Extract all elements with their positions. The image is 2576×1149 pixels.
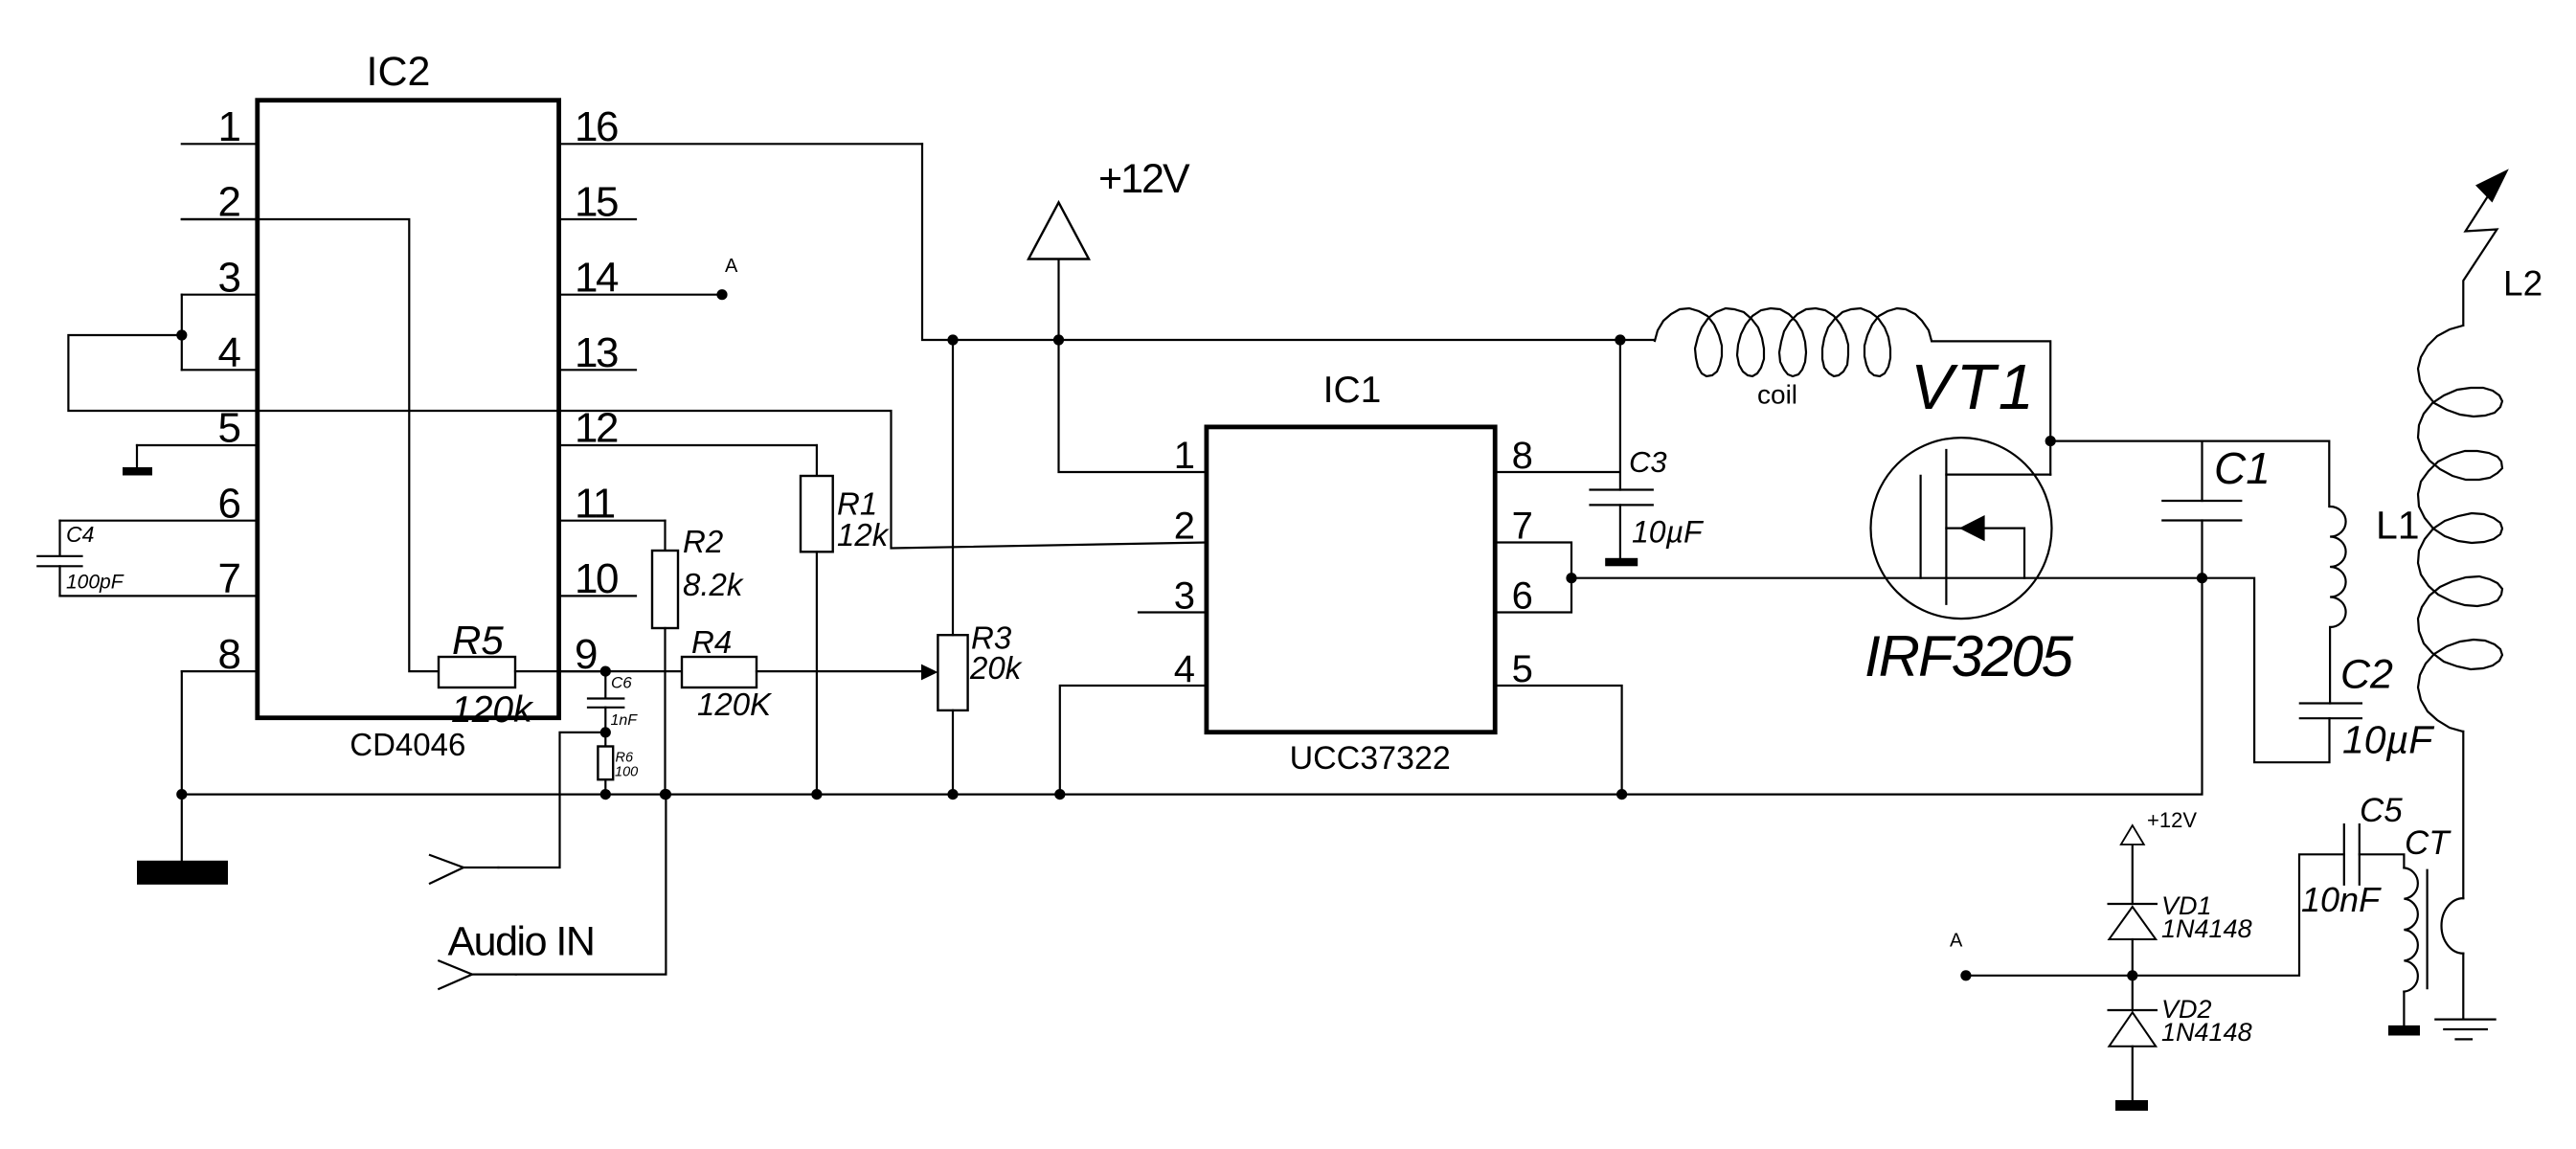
- inductor coil (choke): [1655, 308, 1932, 376]
- +12V small symbol: [2132, 845, 2134, 904]
- svg-text:15: 15: [575, 179, 618, 226]
- svg-text:IC2: IC2: [367, 49, 431, 95]
- ground rail (bottom bus): [182, 578, 2203, 795]
- gate junction node: [1566, 573, 1576, 583]
- svg-text:120k: 120k: [451, 689, 534, 731]
- svg-text:R4: R4: [691, 624, 732, 660]
- IC2 pin 14 stub to node A: [559, 294, 722, 296]
- IC2 pin 2 stub: [182, 218, 258, 220]
- ground bar VD2: [2115, 1100, 2148, 1111]
- svg-text:1: 1: [1174, 435, 1195, 477]
- svg-text:R6: R6: [616, 750, 634, 765]
- svg-text:12k: 12k: [837, 517, 890, 552]
- svg-text:100pF: 100pF: [66, 572, 124, 594]
- svg-text:R2: R2: [683, 524, 723, 559]
- junction R6 to ground rail: [600, 789, 611, 800]
- IC2 pin 5 stub: [137, 444, 258, 446]
- ground pin5: [136, 445, 138, 467]
- svg-text:coil: coil: [1757, 380, 1797, 410]
- svg-text:+12V: +12V: [1098, 156, 1190, 202]
- +12V power symbol (main): [1059, 259, 1207, 473]
- svg-text:1N4148: 1N4148: [2161, 914, 2252, 943]
- wire pins 3-4 tie bracket: [181, 295, 183, 371]
- node A dot (pin14): [716, 289, 727, 300]
- svg-text:+12V: +12V: [2147, 808, 2197, 832]
- junction IC1 pin4 to ground rail: [1054, 789, 1065, 800]
- capacitor C2: [2300, 704, 2361, 719]
- junction R3 bottom to ground rail: [947, 789, 958, 800]
- svg-text:8.2k: 8.2k: [683, 567, 744, 602]
- svg-text:7: 7: [1512, 506, 1533, 548]
- capacitor C6: [604, 671, 606, 698]
- svg-text:8: 8: [218, 631, 241, 678]
- svg-text:8: 8: [1512, 435, 1533, 477]
- node C6/R6/audio junction: [600, 727, 611, 737]
- svg-text:2: 2: [1174, 506, 1195, 548]
- svg-text:Audio IN: Audio IN: [448, 919, 595, 965]
- svg-text:C4: C4: [66, 522, 94, 547]
- IC2 pin 7 stub: [60, 595, 258, 597]
- MOSFET VT1 IRF3205: [1871, 438, 2052, 619]
- svg-text:C1: C1: [2214, 443, 2271, 493]
- node junction pins3/4: [176, 329, 187, 340]
- svg-text:R5: R5: [452, 618, 504, 663]
- svg-text:IRF3205: IRF3205: [1864, 624, 2074, 688]
- capacitor C5: [2344, 824, 2360, 885]
- capacitor C4: [58, 521, 60, 555]
- svg-text:1nF: 1nF: [611, 712, 639, 729]
- svg-text:CD4046: CD4046: [350, 727, 465, 762]
- diode VD1 1N4148: [2109, 903, 2157, 905]
- svg-text:6: 6: [218, 480, 241, 527]
- svg-text:L2: L2: [2503, 263, 2542, 303]
- junction audio return to ground rail: [661, 789, 671, 800]
- node C1 bottom / source junction: [2197, 573, 2207, 583]
- audio input connector (top, to C6): [430, 855, 463, 884]
- IC2 pin 12 stub: [559, 444, 817, 446]
- svg-text:120K: 120K: [697, 687, 773, 722]
- IC2 pin 4 stub: [182, 369, 258, 371]
- IC2 pin 11 stub: [559, 520, 666, 522]
- potentiometer R3: [938, 635, 967, 710]
- svg-text:7: 7: [218, 555, 241, 602]
- junction +12V feed on rail: [1053, 334, 1064, 345]
- IC1 pin 8 wire: [1495, 471, 1620, 473]
- IC2 pin 10 stub: [559, 595, 636, 597]
- IC2 pin 1 stub: [182, 143, 258, 145]
- svg-text:IC1: IC1: [1323, 370, 1382, 411]
- svg-text:13: 13: [575, 329, 618, 376]
- svg-text:20k: 20k: [969, 650, 1023, 686]
- resistor R5: [439, 657, 515, 687]
- svg-text:3: 3: [1174, 575, 1195, 618]
- resistor R6: [604, 732, 606, 747]
- IC1 pin 4 wire to ground: [1060, 686, 1207, 795]
- svg-text:A: A: [725, 256, 738, 277]
- resistor R1: [816, 445, 818, 476]
- IC2 pin 13 stub: [559, 369, 636, 371]
- IC1 UCC37322 driver: [1207, 427, 1495, 732]
- wire R5 to pin9: [515, 670, 605, 672]
- body diode arrow: [1946, 529, 2024, 578]
- transformer CT core: [2427, 870, 2429, 988]
- node pin9 junction: [600, 666, 611, 677]
- svg-text:4: 4: [1174, 648, 1195, 690]
- svg-text:10µF: 10µF: [2342, 717, 2434, 761]
- junction VD1/VD2 node: [2127, 970, 2137, 980]
- resistor R4: [605, 670, 682, 672]
- IC1 pin 5 wire to ground: [1495, 686, 1621, 795]
- channel bar: [1945, 450, 1947, 604]
- +12V rail: [922, 144, 1655, 340]
- svg-text:14: 14: [575, 254, 619, 301]
- svg-text:6: 6: [1512, 575, 1533, 618]
- junction C3 to +12V rail: [1615, 334, 1625, 345]
- gate/source wire to MOSFET and C2 loop: [1571, 578, 2330, 763]
- junction R2 to ground rail: [660, 789, 670, 800]
- secondary coil L2: [2418, 326, 2502, 732]
- wire coil to drain: [1932, 341, 2050, 474]
- gate bar: [1919, 476, 1921, 578]
- svg-text:10µF: 10µF: [1632, 514, 1705, 549]
- svg-text:L1: L1: [2376, 503, 2420, 547]
- IC2 CD4046 PLL: [258, 101, 559, 718]
- node A terminal dot: [1960, 970, 1971, 980]
- svg-text:C6: C6: [611, 674, 632, 692]
- junction IC1 pin5 to ground rail: [1616, 789, 1627, 800]
- junction R3 top to +12V rail: [947, 334, 958, 345]
- svg-text:VT1: VT1: [1910, 351, 2037, 423]
- wire R4 to R3 wiper arrow: [757, 670, 922, 672]
- drain wire to C1 / L1: [2050, 441, 2329, 507]
- resistor R2: [664, 521, 666, 551]
- svg-text:C2: C2: [2340, 652, 2393, 698]
- svg-text:100: 100: [615, 765, 638, 780]
- svg-text:1N4148: 1N4148: [2161, 1018, 2252, 1047]
- junction R1 to ground rail: [811, 789, 822, 800]
- earth ground: [2435, 1020, 2495, 1040]
- svg-text:4: 4: [218, 329, 241, 376]
- svg-text:3: 3: [218, 254, 241, 301]
- svg-text:10nF: 10nF: [2301, 880, 2382, 919]
- IC2 pin 8 stub: [182, 670, 258, 672]
- IC2 pin 9 stub: [559, 670, 606, 672]
- svg-text:A: A: [1950, 931, 1963, 952]
- capacitor C1: [2201, 442, 2203, 502]
- wire pin8 to ground rail: [181, 671, 183, 795]
- transformer CT secondary loop: [2442, 898, 2464, 954]
- svg-text:11: 11: [575, 480, 615, 527]
- svg-text:5: 5: [1512, 648, 1533, 690]
- wire pin3/4 to comparator loop: [68, 335, 1207, 549]
- spark gap lightning arrow: [2463, 175, 2501, 326]
- svg-text:C5: C5: [2360, 792, 2403, 829]
- audio input connector (bottom, Audio IN ground): [439, 960, 472, 988]
- inductor L1: [2330, 507, 2346, 627]
- diode VD2 1N4148: [2109, 1009, 2157, 1011]
- IC2 pin 16 stub: [559, 143, 922, 145]
- svg-text:1: 1: [218, 103, 241, 150]
- svg-text:10: 10: [575, 555, 618, 602]
- IC1 pin 3 stub: [1139, 611, 1207, 613]
- svg-text:C3: C3: [1629, 445, 1667, 479]
- IC1 pin 7 wire: [1495, 543, 1571, 613]
- wire pin2 inner to R5: [182, 219, 439, 671]
- svg-text:UCC37322: UCC37322: [1290, 740, 1451, 777]
- IC2 pin 6 stub: [60, 520, 258, 522]
- transformer CT primary winding: [2404, 867, 2417, 991]
- wire C5 to CT primary: [2360, 854, 2405, 867]
- node drain junction: [2045, 436, 2056, 446]
- svg-text:R1: R1: [837, 485, 877, 521]
- IC2 pin 3 stub: [182, 294, 258, 296]
- svg-text:CT: CT: [2405, 824, 2452, 862]
- drain tap: [1946, 474, 2050, 476]
- IC2 pin 15 stub: [559, 218, 636, 220]
- svg-text:16: 16: [575, 103, 618, 150]
- ground bar big (left): [181, 795, 183, 861]
